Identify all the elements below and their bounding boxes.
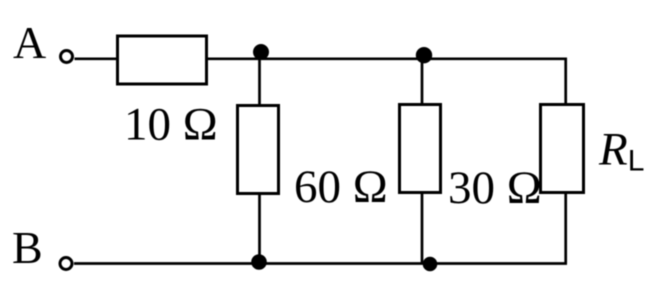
- resistor R2 60 ohm: [238, 106, 279, 194]
- node E (bottom junction dot left): [251, 254, 267, 270]
- wire: resistor RL down to bottom-right corner: [564, 193, 567, 264]
- svg-text:30 Ω: 30 Ω: [448, 162, 542, 214]
- terminal B: [60, 258, 72, 270]
- wire: top rail from R1 to top-right corner: [207, 59, 566, 104]
- svg-text:10 Ω: 10 Ω: [124, 99, 218, 151]
- svg-text:B: B: [12, 222, 43, 273]
- node F (bottom junction dot right): [423, 257, 438, 272]
- node C (top junction dot left): [253, 44, 269, 60]
- terminal A: [61, 51, 73, 63]
- svg-text:RL: RL: [598, 124, 644, 178]
- wire: resistor 30 ohm down to bottom rail: [421, 193, 424, 264]
- svg-text:60 Ω: 60 Ω: [294, 161, 388, 213]
- resistor R1 10 ohm (series): [118, 36, 207, 84]
- wire: resistor 60 ohm down to bottom rail: [258, 194, 261, 264]
- svg-text:A: A: [13, 17, 46, 68]
- resistor RL (load): [541, 105, 584, 193]
- wire: node D down to resistor 30 ohm: [421, 59, 424, 104]
- resistor R3 30 ohm: [400, 105, 441, 193]
- wire: node C down to resistor 60 ohm: [258, 59, 261, 105]
- node D (top junction dot right): [416, 47, 432, 63]
- wire: terminal A to resistor R1: [75, 57, 118, 60]
- wire: bottom rail from terminal B to bottom-right corner: [74, 262, 567, 265]
